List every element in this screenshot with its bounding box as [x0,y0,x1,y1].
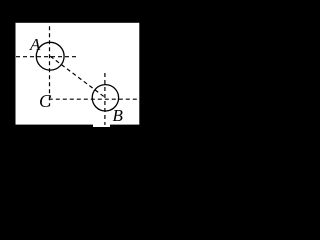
circle A [36,42,64,70]
svg-text:A: A [29,35,41,54]
dashed horizontal line through A [16,56,76,58]
dashed diagonal line from A to B [50,56,105,97]
svg-text:B: B [113,106,124,125]
dashed vertical line through B [104,73,106,125]
dashed horizontal line through B [49,98,139,100]
white figure panel [16,23,140,125]
black backdrop [0,0,171,184]
svg-text:C: C [39,91,52,111]
circle B [92,85,118,111]
dashed vertical line through A [49,26,51,106]
white notch at panel bottom under circle B [93,124,110,127]
